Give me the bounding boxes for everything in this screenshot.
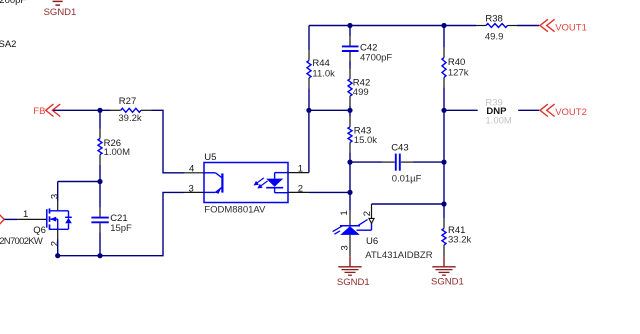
- value FODM8801AV: [204, 204, 266, 215]
- resistor R42: [348, 69, 370, 111]
- svg-text:1: 1: [23, 209, 28, 220]
- svg-text:VOUT1: VOUT1: [555, 22, 587, 33]
- U5 LED: [254, 173, 289, 193]
- svg-text:3: 3: [189, 184, 194, 195]
- pin number 2 (Q6 source, rotated): [49, 241, 60, 246]
- pin number 4: [189, 163, 194, 174]
- node junction R44/U5pin1/link: [306, 108, 311, 113]
- pin number 3 (U6, rotated): [340, 245, 351, 250]
- designator Q6: [33, 225, 46, 236]
- svg-text:C42: C42: [360, 42, 377, 53]
- node junction FB/R27/R26: [97, 108, 102, 113]
- wire rail R40 node to C43 node: [443, 110, 445, 162]
- port FB: [33, 104, 60, 117]
- pin number 1 (U6, rotated): [339, 210, 350, 215]
- ground SGND1 (top, clipped): [44, 1, 77, 18]
- wire bottom rail to U5 pin3: [58, 192, 184, 255]
- node junction R42/R43: [347, 108, 352, 113]
- wire top rail: [309, 25, 476, 27]
- node junction R38/R40: [441, 23, 446, 28]
- node junction C21 bottom: [97, 253, 102, 258]
- wire gate: [4, 218, 46, 220]
- net label SA2 (clipped at left edge): [0, 39, 16, 50]
- designator U5: [204, 152, 216, 163]
- wire R40 node to DNP R39: [444, 109, 478, 111]
- pin number 2: [298, 184, 303, 195]
- svg-text:15.0k: 15.0k: [354, 135, 377, 146]
- U6 ref pin arrowhead: [369, 218, 374, 223]
- svg-text:2200pF: 2200pF: [0, 0, 26, 6]
- svg-text:SGND1: SGND1: [337, 277, 370, 288]
- designator U6: [366, 236, 378, 247]
- port VOUT1: [540, 19, 587, 33]
- capacitor value label 2200pF (clipped at top edge): [0, 0, 26, 6]
- resistor R38: [476, 13, 539, 42]
- U5 pin 1 lead: [288, 172, 309, 174]
- svg-text:33.2k: 33.2k: [448, 234, 471, 245]
- svg-text:1.00M: 1.00M: [485, 115, 511, 126]
- pin number 2 (U6, rotated): [362, 211, 373, 216]
- svg-text:2: 2: [362, 211, 373, 216]
- ground SGND1 (under U6): [337, 256, 370, 288]
- wire U6 cathode: [349, 162, 351, 192]
- svg-text:U6: U6: [366, 236, 378, 247]
- pin number 1: [298, 163, 303, 174]
- svg-text:1.00M: 1.00M: [104, 147, 130, 158]
- svg-text:VOUT2: VOUT2: [555, 107, 587, 118]
- op-amp U5 optocoupler FODM8801AV box: [204, 163, 288, 203]
- svg-text:SA2: SA2: [0, 39, 16, 50]
- value ATL431AIDBZR: [365, 250, 433, 261]
- U6 anode lead: [349, 235, 351, 256]
- U5 pin 4 lead: [184, 172, 204, 174]
- svg-text:SGND1: SGND1: [431, 276, 464, 287]
- svg-text:SGND1: SGND1: [44, 7, 77, 18]
- svg-text:R38: R38: [485, 13, 502, 24]
- U6 cathode lead: [349, 192, 351, 225]
- wire U5 pin1 up to R44 node: [308, 110, 310, 172]
- svg-text:C43: C43: [391, 143, 408, 154]
- resistor R41: [442, 204, 471, 257]
- wire rail C43 node to R41 node: [443, 162, 445, 204]
- resistor R39 DNP labels: [485, 98, 511, 127]
- svg-text:1: 1: [298, 163, 303, 174]
- U5 phototransistor: [204, 173, 222, 194]
- svg-text:4: 4: [189, 163, 194, 174]
- ground SGND1 (under R41): [431, 257, 464, 288]
- node junction R40/DNP row: [441, 108, 446, 113]
- svg-text:R27: R27: [119, 96, 136, 107]
- svg-text:1: 1: [339, 210, 350, 215]
- node junction R43/C43/U6: [347, 160, 352, 165]
- svg-text:11.0k: 11.0k: [312, 69, 335, 80]
- capacitor C42: [342, 26, 393, 69]
- svg-text:2: 2: [49, 241, 60, 246]
- pin number 3 (Q6 drain, rotated): [49, 194, 60, 199]
- svg-text:127k: 127k: [448, 68, 469, 79]
- wire U5 pin2 to U6 cathode node: [309, 191, 350, 193]
- svg-text:39.2k: 39.2k: [118, 113, 141, 124]
- node junction U6 ref / R41: [441, 201, 446, 206]
- svg-text:499: 499: [353, 87, 369, 98]
- resistor R40: [442, 26, 469, 111]
- svg-text:0.01µF: 0.01µF: [392, 173, 422, 184]
- wire DNP to VOUT2: [518, 109, 539, 111]
- svg-text:15pF: 15pF: [110, 223, 132, 234]
- svg-text:ATL431AIDBZR: ATL431AIDBZR: [365, 250, 433, 261]
- transistor U6 ATL431 symbol: [333, 220, 372, 235]
- svg-text:2N7002KW: 2N7002KW: [0, 236, 43, 247]
- capacitor C21: [91, 182, 132, 256]
- U5 pin 3 lead: [184, 191, 204, 193]
- node junction C42 top: [347, 23, 352, 28]
- resistor R26: [98, 110, 130, 181]
- transistor Q6 body: [47, 208, 72, 229]
- svg-text:R40: R40: [448, 57, 465, 68]
- U5 pin 2 lead: [288, 191, 309, 193]
- node junction Q6 source: [55, 253, 60, 258]
- svg-text:3: 3: [340, 245, 351, 250]
- svg-text:FB: FB: [33, 106, 45, 117]
- wire R27 to U5 pin4: [152, 110, 185, 173]
- svg-text:R44: R44: [312, 58, 329, 69]
- resistor R27: [100, 96, 152, 124]
- svg-text:3: 3: [49, 194, 60, 199]
- wire Q6 source down: [57, 229, 59, 255]
- port VOUT2: [540, 104, 587, 118]
- U6 ref wire to R41 node: [372, 204, 445, 218]
- wire FB to junction: [53, 109, 100, 111]
- pin number 1 (Q6 gate): [23, 209, 28, 220]
- node junction Q6 drain / R26 / C21: [97, 179, 102, 184]
- svg-text:FODM8801AV: FODM8801AV: [204, 204, 266, 215]
- svg-text:2: 2: [298, 184, 303, 195]
- wire junction to Q6 drain: [58, 182, 100, 211]
- port arrow to Q6 gate (clipped diamond): [0, 215, 4, 225]
- svg-text:Q6: Q6: [33, 225, 46, 236]
- value 2N7002KW: [0, 236, 43, 247]
- node junction U5 pin2 / U6 cathode: [347, 190, 352, 195]
- node junction C43 right: [441, 160, 446, 165]
- resistor R44: [307, 26, 335, 111]
- svg-text:U5: U5: [204, 152, 216, 163]
- svg-text:4700pF: 4700pF: [360, 53, 392, 64]
- svg-text:49.9: 49.9: [485, 31, 504, 42]
- pin number 3: [189, 184, 194, 195]
- capacitor C43: [350, 143, 444, 185]
- wire link R44 node to R42/R43 node: [309, 109, 350, 111]
- resistor R43: [348, 110, 377, 162]
